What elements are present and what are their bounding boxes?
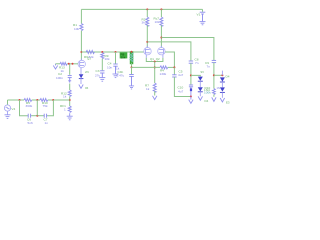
node dot base A (68, 63, 70, 65)
node dot Q2 collector (160, 37, 162, 39)
emitter stub Q1 (145, 55, 147, 58)
svg-text:2N: 2N (85, 70, 89, 74)
wire x=69.7 mid (69, 84, 71, 91)
wire base y=64 left (56, 63, 61, 65)
resistor R4 (horizontal y=67.4) (160, 66, 168, 69)
wire ladder right (48, 99, 70, 101)
capacitor C4b (x=131.5) (129, 75, 134, 86)
node dot (174.4,67.4) (173, 66, 175, 68)
ground arrow (x=222.4) (220, 98, 224, 102)
svg-text:4u7: 4u7 (178, 73, 183, 77)
capacitor C2 (x=69.7) (68, 76, 72, 83)
svg-text:Q3: Q3 (87, 57, 91, 61)
capacitor C5 (x=174.4) (172, 75, 176, 77)
emitter stub Q2 (162, 55, 164, 58)
capacitor C9 (x=213.9) (212, 60, 216, 62)
svg-text:06: 06 (85, 86, 89, 90)
svg-text:D4: D4 (226, 75, 230, 79)
wire x=213.9 (213, 63, 215, 89)
node dot base B (72, 63, 74, 65)
ground bars (source) (5, 115, 11, 119)
wire emitter stub Q3 (80, 68, 82, 74)
svg-text:C3: C3 (96, 69, 100, 73)
svg-text:1k: 1k (63, 95, 67, 99)
wire ladder left drop (20, 100, 28, 116)
ground bars (x=131.5) (129, 86, 134, 89)
ground bars (x=115.5) (113, 74, 119, 78)
node dot Q1 collector (146, 41, 148, 43)
ground bars (x=102.3) (99, 78, 105, 82)
ground arrow (base bias, left) (55, 64, 57, 66)
svg-text:10n: 10n (107, 65, 112, 69)
wire ladder bottom right + up (47, 100, 53, 116)
ground arrow (emitter R7) (153, 96, 157, 100)
source V4 (4, 100, 10, 115)
svg-text:E3: E3 (226, 100, 230, 104)
svg-text:V1: V1 (197, 12, 201, 16)
svg-text:1: 1 (64, 107, 66, 111)
wire y=100 ladder (8, 99, 25, 101)
svg-text:100k: 100k (204, 90, 211, 94)
svg-text:130k: 130k (160, 72, 167, 76)
highlighted label box R8 (120, 52, 128, 58)
svg-text:D4: D4 (205, 99, 209, 103)
wire y=75.4 right (191, 75, 200, 76)
wire base y=64 to Q3 (67, 63, 78, 65)
capacitor C4 (x=115.5 below rail) (115, 51, 117, 53)
capacitor C8 (x=190.9) (189, 61, 193, 63)
wire Q2 base right (165, 52, 174, 67)
wire below diode (80, 78, 82, 84)
transistor Q2 (158, 46, 165, 55)
svg-text:27u: 27u (95, 73, 100, 77)
svg-text:1k: 1k (146, 87, 150, 91)
wire collector column x=81.4 (80, 31, 82, 61)
ground arrow (x=200.3) (198, 96, 202, 100)
ground arrow (x=190.9) (190, 97, 192, 100)
battery V1 (202, 9, 204, 11)
resistor R7 (x=154.7, y 83-91) (153, 83, 156, 92)
diode D5 (x=222.4 upper) (220, 77, 225, 81)
resistor R11 (x=213.9 y 88.5-95) (212, 89, 215, 95)
diode D6 (x=222.4 lower) (220, 87, 225, 91)
node dot (37.3,115.7) (36, 115, 38, 117)
ground bars (battery) (200, 22, 206, 25)
resistor R6 82k (horizontal on rail) (86, 50, 95, 53)
resistor R3 (x=161.4 top) (160, 8, 162, 10)
node dot emitters (154, 61, 156, 63)
ground arrow (Q3 emitter) (79, 85, 83, 89)
svg-text:0.47u: 0.47u (117, 74, 125, 78)
wire y=75.3 to x=222.4 (214, 74, 223, 76)
resistor R10 (ladder 2) (40, 99, 48, 102)
wire x=69.7 to node (69, 97, 71, 107)
resistor R13 1k (horizontal on base wire) (60, 62, 67, 65)
node dot (37.3,100) (36, 99, 38, 101)
node dot ladder out (69, 99, 71, 101)
wire x=174.4 to corner (174, 77, 191, 97)
wire below R8 dot (131, 67, 133, 74)
node dot (53.2,100) (52, 99, 54, 101)
node dot collector Q3 (80, 51, 82, 53)
svg-text:R10: R10 (205, 86, 211, 90)
node dot (19.5,100) (19, 99, 21, 101)
resistor R9 (x=102.3 below rail) (101, 51, 103, 53)
transistor Q3 (78, 59, 85, 68)
svg-text:7n: 7n (195, 61, 199, 65)
wire y=37.5 to right (161, 38, 214, 61)
wire x=69.7 down from base (69, 64, 71, 75)
wire x=37.3 vertical (36, 100, 38, 116)
ground arrow (x=213.9) (212, 97, 216, 101)
capacitor C3 (x=102.3) (100, 71, 104, 78)
highlighted resistor R8 (130, 51, 134, 64)
diode D3 (x=200.3 lower) (198, 87, 203, 91)
node dot (190.9,75.4) (190, 74, 192, 76)
svg-text:3k3: 3k3 (142, 21, 147, 25)
wire x=174.4 below dot (173, 67, 175, 74)
svg-text:7n: 7n (207, 65, 211, 69)
svg-text:100n: 100n (56, 76, 63, 80)
node dot (222.4,75.3) (221, 74, 223, 76)
wire ladder bottom mid (31, 115, 43, 117)
svg-text:9V: 9V (201, 70, 205, 74)
resistor R12 (x=69.7 y 90-96.5) (68, 90, 71, 96)
transistor Q1 (144, 46, 151, 55)
resistor R5 (ladder 1) (24, 99, 32, 102)
node dot (154.7,67.4) (154, 66, 156, 68)
ground bars (x=69.7) (67, 113, 73, 120)
svg-text:10k: 10k (105, 57, 110, 61)
wire top rail (81, 8, 202, 10)
svg-text:360k: 360k (26, 104, 33, 108)
wire y=41.9 to right (147, 42, 191, 61)
wire emitter down (154, 62, 156, 84)
svg-text:4u7: 4u7 (178, 89, 183, 93)
resistor RF1 (x=69.7 y 106-113) (68, 106, 71, 112)
svg-text:1N: 1N (217, 86, 220, 90)
svg-text:V4: V4 (11, 107, 15, 111)
diode D1 (emitter of Q3) (79, 74, 84, 78)
wire x=102.3 (101, 59, 103, 71)
svg-text:Q1: Q1 (150, 57, 154, 61)
wire y=67.4 (132, 66, 161, 68)
svg-text:1n: 1n (45, 121, 49, 125)
svg-text:75k: 75k (43, 104, 48, 108)
svg-text:30k: 30k (121, 55, 126, 59)
wire emitter join (146, 58, 163, 62)
svg-text:10k: 10k (155, 20, 160, 24)
node dot (213.9,75.3) (213, 74, 215, 76)
svg-text:10k: 10k (74, 27, 79, 31)
capacitor C7 (ladder bottom 2) (44, 114, 48, 118)
svg-text:5n6: 5n6 (28, 121, 33, 125)
resistor R2 (x=147.3 top) (146, 8, 148, 10)
diode D2 (x=200.3 upper) (198, 77, 203, 81)
capacitor C6 (ladder bottom 1) (28, 114, 32, 118)
wire y=52 rail (81, 51, 143, 53)
wire ladder mid (32, 99, 40, 101)
svg-text:Q2: Q2 (156, 57, 160, 61)
resistor R1 10k (vertical at x=81.4) (80, 24, 83, 31)
wire x=190.9 (190, 63, 192, 84)
wire left drop from top rail (80, 9, 82, 23)
node dot (190.9,96.5) (190, 96, 192, 98)
capacitor C10 (x=190.9 lower) (189, 85, 193, 88)
